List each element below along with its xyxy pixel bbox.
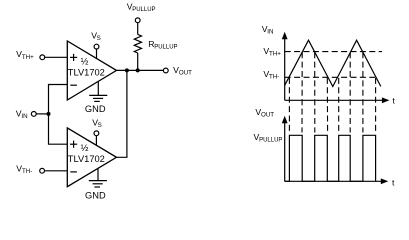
svg-text:GND: GND	[85, 190, 106, 200]
svg-text:TH+: TH+	[269, 51, 281, 58]
svg-text:PULLUP: PULLUP	[132, 7, 155, 13]
svg-text:TH-: TH-	[269, 74, 279, 81]
svg-text:OUT: OUT	[261, 112, 274, 119]
svg-text:OUT: OUT	[179, 70, 192, 77]
svg-text:PULLUP: PULLUP	[259, 137, 282, 143]
svg-text:TLV1702: TLV1702	[68, 154, 105, 164]
svg-text:IN: IN	[21, 113, 27, 120]
svg-text:½: ½	[81, 56, 89, 66]
svg-text:TH+: TH+	[22, 54, 34, 61]
svg-text:TH-: TH-	[22, 168, 32, 175]
svg-text:S: S	[98, 122, 102, 129]
svg-text:S: S	[97, 35, 101, 42]
svg-text:½: ½	[81, 143, 89, 153]
svg-text:TLV1702: TLV1702	[68, 67, 105, 77]
svg-text:IN: IN	[267, 28, 273, 35]
svg-text:GND: GND	[85, 104, 106, 114]
svg-text:PULLUP: PULLUP	[154, 45, 177, 51]
